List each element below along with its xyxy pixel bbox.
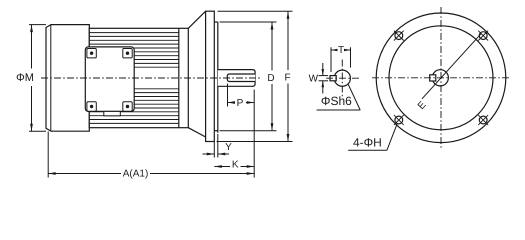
flange spigot circle bbox=[389, 26, 493, 130]
mounting flange plate bbox=[206, 11, 215, 141]
dim phiM extension top bbox=[29, 24, 46, 26]
output shaft bbox=[227, 74, 255, 82]
bolt hole BR bbox=[479, 116, 487, 124]
motor body cooling ribs bbox=[89, 33, 179, 124]
dim P extension left bbox=[227, 84, 229, 107]
bell housing top slant bbox=[188, 11, 205, 28]
shaft bore circle at flange center bbox=[432, 70, 448, 86]
dim P extension right (shaft end line) bbox=[253, 90, 255, 178]
flange outer circle bbox=[376, 13, 506, 143]
key square at flange center bbox=[430, 75, 436, 81]
svg-text:F: F bbox=[284, 72, 290, 83]
plate bottom tab bbox=[104, 111, 121, 115]
dim F line bbox=[287, 11, 289, 70]
dim Y arrows bbox=[203, 153, 215, 155]
label phi-S-h6 leader bbox=[317, 109, 361, 111]
dim Y extension right bbox=[217, 134, 219, 158]
label 4-phiH leader bbox=[348, 149, 387, 151]
dim A(A1) extension left bbox=[47, 132, 49, 178]
key on shaft bbox=[330, 76, 336, 81]
bolt hole TL bbox=[395, 32, 403, 40]
dim Y extension left (flange face) bbox=[213, 142, 215, 158]
dim T extension right bbox=[350, 47, 352, 67]
dim A(A1) line bbox=[48, 173, 121, 175]
flange vertical centerline bbox=[440, 7, 442, 149]
motor centerline bbox=[41, 77, 261, 79]
dim phiM line bbox=[31, 25, 33, 69]
fan cover (rear cap) bbox=[46, 25, 89, 132]
svg-text:A(A1): A(A1) bbox=[123, 169, 149, 180]
svg-text:P: P bbox=[237, 98, 244, 109]
svg-text:Y: Y bbox=[225, 142, 232, 153]
bell housing bottom slant bbox=[188, 128, 205, 137]
dim E diagonal line bbox=[422, 34, 481, 99]
dim D line bbox=[271, 22, 273, 71]
dim W extension top bbox=[319, 75, 329, 77]
gearcase top edge bbox=[214, 21, 218, 23]
svg-text:W: W bbox=[309, 73, 319, 84]
svg-text:K: K bbox=[232, 160, 239, 171]
dim D extension top bbox=[220, 21, 277, 23]
dim W arrows bbox=[322, 63, 324, 76]
svg-text:4-ΦH: 4-ΦH bbox=[353, 135, 382, 149]
shaft section vertical centerline bbox=[341, 60, 343, 97]
dim K line bbox=[214, 166, 230, 168]
svg-text:ΦSh6: ΦSh6 bbox=[321, 94, 352, 108]
output boss bbox=[218, 70, 255, 87]
dim F extension top bbox=[218, 10, 293, 12]
gearcase right edge bbox=[217, 22, 219, 133]
shaft section horizontal centerline bbox=[326, 77, 359, 79]
fan cover seam line bbox=[50, 25, 52, 132]
bolt hole BL bbox=[395, 116, 403, 124]
bolt hole TR bbox=[479, 32, 487, 40]
svg-text:T: T bbox=[338, 45, 344, 56]
dim P line bbox=[228, 102, 235, 104]
terminal box plate bbox=[85, 47, 134, 112]
dim phiM extension bottom bbox=[29, 130, 46, 132]
plate corner screws bbox=[87, 49, 96, 58]
motor end bracket line bbox=[178, 28, 180, 127]
dim F extension bottom bbox=[217, 141, 293, 143]
gearcase bottom edge bbox=[214, 130, 218, 132]
dim D extension bottom bbox=[220, 130, 277, 132]
motor body frame bbox=[89, 28, 188, 127]
dim T extension left bbox=[330, 47, 332, 72]
dim W extension bottom bbox=[319, 80, 329, 82]
dim T line bbox=[331, 49, 336, 51]
shaft section circle bbox=[334, 70, 350, 86]
flange horizontal centerline bbox=[372, 77, 511, 79]
svg-text:D: D bbox=[267, 73, 274, 84]
svg-text:ΦM: ΦM bbox=[16, 72, 34, 84]
